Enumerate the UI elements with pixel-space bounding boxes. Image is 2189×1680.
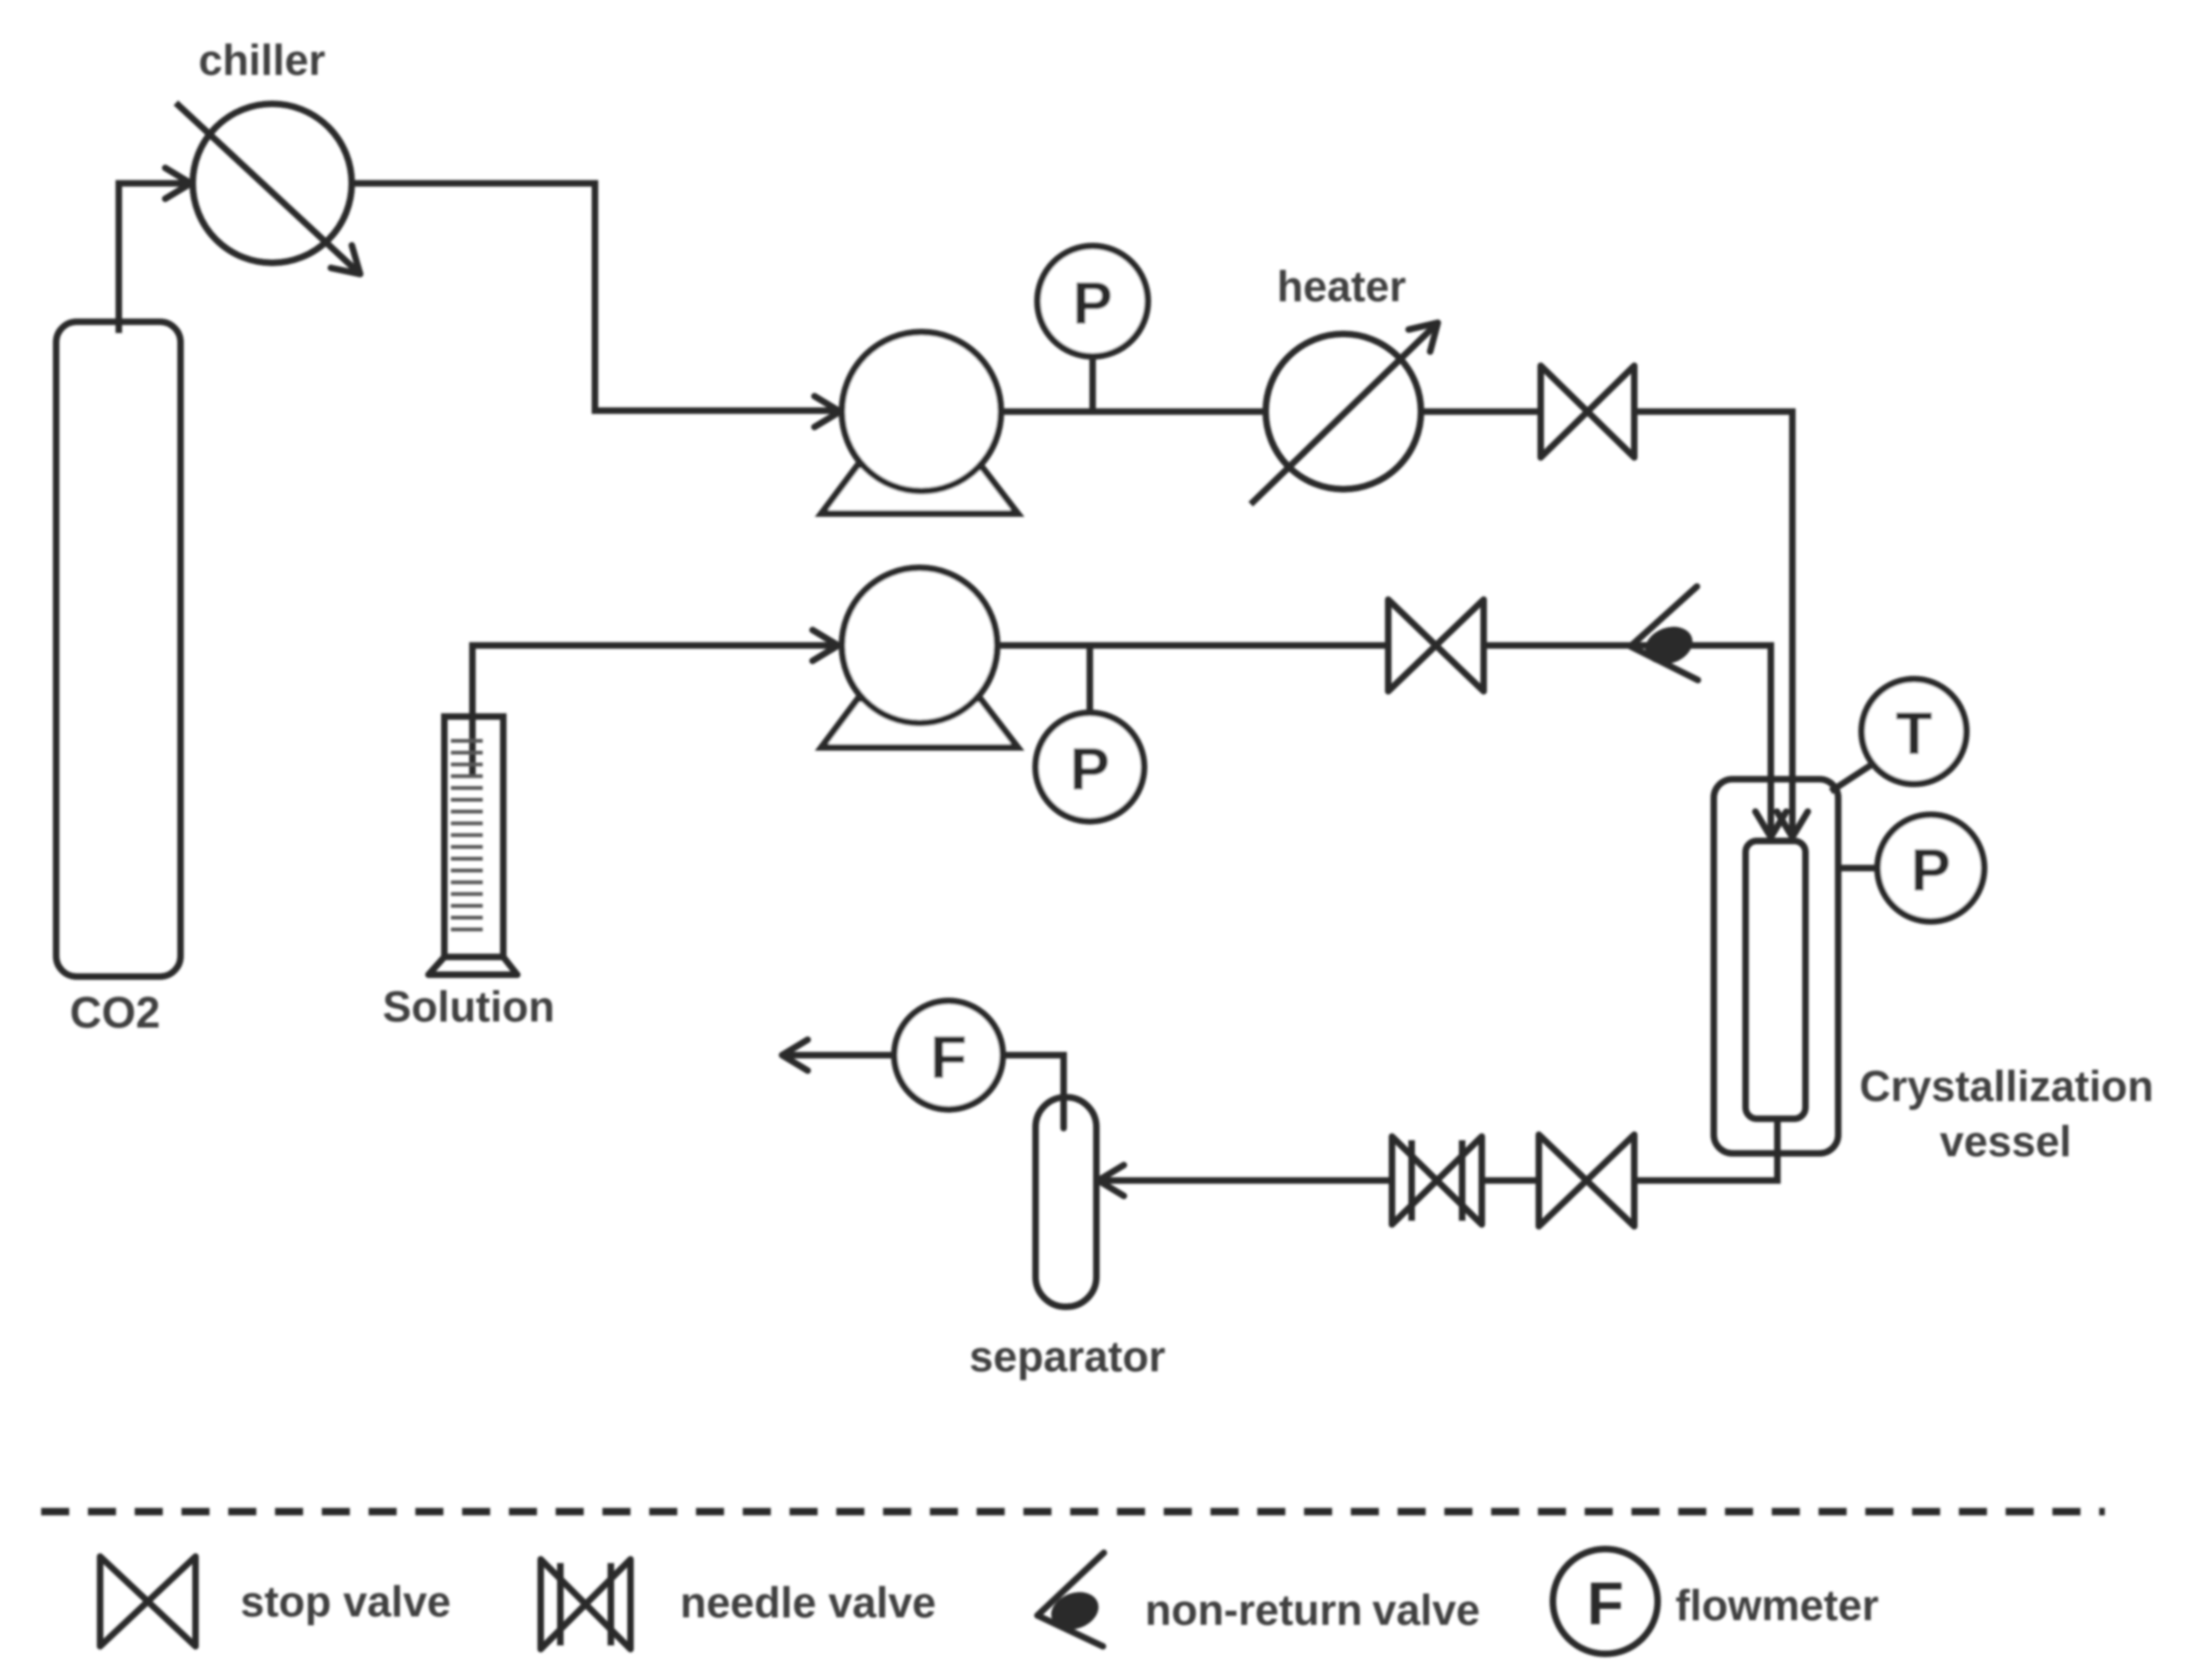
CO2 pump circle [842, 332, 1001, 491]
chiller (heat exchanger circle) [193, 104, 352, 263]
legend stop valve symbol [100, 1557, 196, 1646]
crystallization vessel outer shell [1714, 779, 1838, 1153]
wire V1 down to crystallization vessel [1634, 412, 1792, 833]
wire solution cylinder to pump P2 [472, 645, 836, 775]
svg-text:F: F [1587, 1570, 1623, 1637]
svg-text:P: P [1070, 735, 1110, 803]
wire separator top to flowmeter [1003, 1055, 1064, 1128]
legend non-return valve symbol [1037, 1553, 1104, 1646]
pressure gauge P3 [1877, 815, 1984, 921]
heater diagonal arrow [1251, 323, 1438, 504]
wire chiller to pump P1 [352, 183, 839, 411]
svg-text:P: P [1073, 269, 1113, 337]
solution pump stand [821, 699, 1018, 747]
CO2 cylinder [56, 322, 181, 977]
pressure gauge P2 [1036, 713, 1144, 821]
svg-text:stop valve: stop valve [240, 1577, 451, 1626]
solution cylinder base [428, 957, 517, 975]
svg-text:vessel: vessel [1940, 1117, 2072, 1166]
svg-text:needle valve: needle valve [680, 1578, 936, 1627]
wire needle valve to separator [1102, 1178, 1392, 1184]
temperature gauge T connector [1831, 763, 1874, 791]
svg-text:CO2: CO2 [70, 988, 161, 1037]
heater circle [1266, 334, 1421, 489]
svg-text:T: T [1895, 700, 1932, 767]
solution graduated cylinder body [444, 717, 503, 957]
wire CO2 cylinder to chiller inlet [119, 183, 187, 333]
svg-text:chiller: chiller [198, 36, 326, 84]
svg-text:valve: valve [1372, 1586, 1480, 1634]
CO2 pump stand [821, 465, 1018, 514]
wire pump P2 to stop valve V2 [999, 643, 1389, 649]
solution cylinder graduations [451, 741, 483, 930]
svg-text:P: P [1911, 836, 1951, 904]
svg-text:separator: separator [969, 1332, 1166, 1381]
wire flowmeter vent outlet [786, 1052, 894, 1059]
legend needle valve symbol [541, 1559, 631, 1649]
arrowhead into CO2 pump [815, 397, 840, 427]
arrowhead into separator [1098, 1166, 1123, 1196]
legend separator dashed line [41, 1508, 2105, 1515]
stop valve V2 (solution line) [1388, 600, 1484, 691]
solution pump circle [842, 568, 997, 723]
arrowhead solution feed into vessel [1756, 812, 1787, 837]
pressure gauge P2 stem [1087, 645, 1094, 713]
stop valve V3 (vessel outlet) [1539, 1135, 1634, 1226]
legend flowmeter symbol [1553, 1549, 1658, 1654]
crystallization vessel inner tube [1746, 841, 1805, 1119]
svg-text:Solution: Solution [383, 982, 555, 1031]
svg-text:Crystallization: Crystallization [1860, 1062, 2153, 1110]
svg-text:heater: heater [1277, 262, 1406, 311]
wire V3 to needle valve NV1 [1482, 1178, 1539, 1184]
svg-text:flowmeter: flowmeter [1675, 1581, 1878, 1629]
non-return valve NRV [1631, 587, 1698, 680]
wire vessel bottom to stop valve V3 [1634, 1119, 1777, 1180]
arrowhead vent out [782, 1040, 807, 1071]
arrowhead into chiller [166, 168, 191, 199]
separator vessel [1036, 1097, 1096, 1307]
stop valve V1 [1541, 366, 1634, 457]
temperature gauge T [1862, 679, 1966, 784]
svg-text:F: F [930, 1023, 966, 1091]
needle valve NV1 [1392, 1137, 1482, 1224]
svg-text:non-return: non-return [1145, 1586, 1363, 1634]
chiller diagonal arrow [176, 103, 360, 274]
wire heater to stop valve V1 [1421, 409, 1541, 415]
pressure gauge P1 [1037, 246, 1148, 356]
flowmeter F [894, 1001, 1003, 1109]
pressure gauge P3 connector [1838, 865, 1877, 872]
wire pump to heater [1001, 409, 1266, 415]
arrowhead into solution pump [813, 630, 838, 661]
wire V2 to non-return valve and down to vessel [1484, 645, 1771, 833]
pressure gauge P1 stem [1090, 356, 1096, 412]
arrowhead CO2 feed into vessel [1777, 812, 1808, 837]
